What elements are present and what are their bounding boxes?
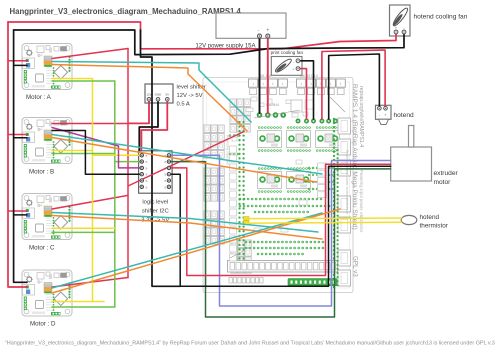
svg-text:Hangprinter_V3_electronics_dia: Hangprinter_V3_electronics_diagram_Mecha… bbox=[10, 7, 242, 16]
svg-text:1: 1 bbox=[310, 82, 312, 86]
svg-text:print cooling fan: print cooling fan bbox=[271, 50, 304, 55]
svg-text:hotend cooling fan: hotend cooling fan bbox=[414, 14, 468, 21]
svg-text:GND: GND bbox=[155, 93, 163, 97]
svg-text:Motor : A: Motor : A bbox=[26, 94, 52, 101]
svg-text:B: B bbox=[146, 179, 148, 183]
svg-text:B: B bbox=[165, 160, 167, 164]
svg-text:B: B bbox=[146, 154, 148, 158]
svg-text:1: 1 bbox=[340, 82, 342, 86]
svg-text:+: + bbox=[266, 28, 269, 34]
svg-text:1: 1 bbox=[262, 82, 264, 86]
svg-text:GPL v3: GPL v3 bbox=[352, 256, 359, 277]
svg-text:B: B bbox=[165, 185, 167, 189]
svg-text:Motor : D: Motor : D bbox=[30, 321, 56, 328]
svg-text:B: B bbox=[165, 179, 167, 183]
svg-text:1: 1 bbox=[282, 82, 284, 86]
svg-text:B: B bbox=[146, 173, 148, 177]
svg-text:thermistor: thermistor bbox=[420, 223, 449, 230]
svg-text:5V: 5V bbox=[165, 93, 169, 97]
svg-text:0.5 A: 0.5 A bbox=[177, 102, 190, 108]
svg-text:B: B bbox=[146, 185, 148, 189]
svg-text:12V: 12V bbox=[146, 93, 151, 97]
svg-text:B: B bbox=[165, 173, 167, 177]
svg-text:B: B bbox=[146, 166, 148, 170]
svg-text:Reversing input power burns el: Reversing input power burns electronics bbox=[345, 150, 349, 214]
svg-text:1: 1 bbox=[252, 82, 254, 86]
svg-text:hotend: hotend bbox=[394, 112, 415, 119]
svg-text:Motor : C: Motor : C bbox=[29, 245, 55, 252]
svg-text:B: B bbox=[146, 160, 148, 164]
svg-text:5A 11A: 5A 11A bbox=[260, 74, 272, 78]
svg-text:D8 D9 D10: D8 D9 D10 bbox=[300, 74, 318, 78]
svg-text:1: 1 bbox=[330, 82, 332, 86]
svg-text:“Hangprinter_V3_electronics_di: “Hangprinter_V3_electronics_diagram_Mech… bbox=[5, 341, 495, 347]
svg-text:Motor : B: Motor : B bbox=[29, 169, 54, 176]
svg-text:hotend: hotend bbox=[420, 214, 440, 221]
svg-text:1: 1 bbox=[272, 82, 274, 86]
svg-text:12V -> 5V: 12V -> 5V bbox=[177, 93, 203, 99]
svg-text:1: 1 bbox=[300, 82, 302, 86]
svg-text:logic level: logic level bbox=[142, 200, 168, 206]
svg-text:RAMPS 1.4 (RepRap Arduino Mega: RAMPS 1.4 (RepRap Arduino Mega Pololu Sh… bbox=[351, 84, 358, 230]
svg-text:shifter I2C: shifter I2C bbox=[142, 209, 170, 215]
svg-text:motor: motor bbox=[434, 179, 452, 186]
svg-text:reprap.org/wiki/RAMPS1.4: reprap.org/wiki/RAMPS1.4 bbox=[358, 86, 364, 147]
svg-text:extruder: extruder bbox=[434, 170, 459, 177]
